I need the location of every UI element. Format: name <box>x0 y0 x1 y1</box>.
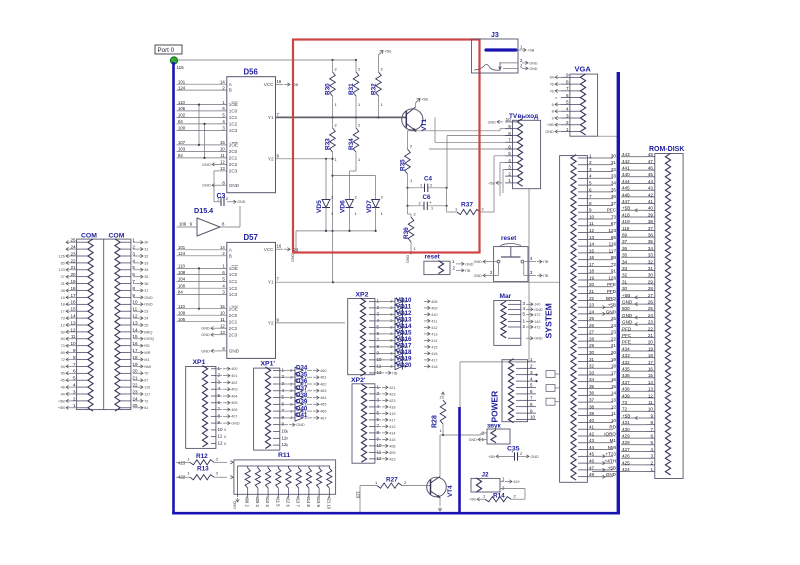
pin POWER 6 <box>516 393 528 395</box>
pin XP2' 12 <box>369 458 375 460</box>
svg-text:401: 401 <box>231 374 237 378</box>
svg-text:GND: GND <box>291 253 295 262</box>
svg-text:2C1: 2C1 <box>229 156 238 161</box>
svg-text:24: 24 <box>589 309 595 314</box>
svg-text:+4TH: +4TH <box>605 459 616 464</box>
pin VGA 5 <box>561 103 570 105</box>
svg-text:2: 2 <box>530 364 533 369</box>
svg-text:9: 9 <box>589 208 592 213</box>
svg-text:R37: R37 <box>461 201 473 208</box>
svg-text:42: 42 <box>648 192 654 197</box>
svg-text:5: 5 <box>377 324 380 329</box>
svg-text:5: 5 <box>530 383 533 388</box>
pin SYSTEM 41 net RD <box>578 428 587 430</box>
pin SYSTEM 1 net 30 <box>578 157 587 159</box>
svg-text:17: 17 <box>611 370 617 375</box>
svg-text:5: 5 <box>508 151 511 156</box>
pin ROM-DISK 48 net 443 <box>646 156 655 158</box>
svg-text:2C0: 2C0 <box>229 313 238 318</box>
svg-text:+5B: +5B <box>384 49 391 54</box>
pin SYSTEM 20 net PFE <box>578 286 587 288</box>
pin SYSTEM 16 net 88 <box>578 259 587 261</box>
svg-text:+5B: +5B <box>527 47 534 52</box>
svg-text:37: 37 <box>144 289 148 293</box>
pin XP2 4 <box>369 320 375 322</box>
svg-text:2: 2 <box>331 195 333 200</box>
pin SYSTEM 39 net 11 <box>578 415 587 417</box>
svg-text:R30: R30 <box>325 83 332 95</box>
pin Mar 2 <box>508 326 521 328</box>
svg-text:2: 2 <box>282 374 285 379</box>
pin ROM-DISK 39 net 418 <box>646 216 655 218</box>
pin ROM-DISK 31 net 33 <box>646 270 655 272</box>
pin XP2' 10 <box>369 445 375 447</box>
svg-text:27: 27 <box>589 330 595 335</box>
svg-text:8: 8 <box>218 413 221 418</box>
pin XP1 12 <box>211 443 216 445</box>
svg-text:101: 101 <box>178 245 186 250</box>
svg-text:GND: GND <box>202 183 211 188</box>
svg-text:ПВ: ПВ <box>392 371 398 375</box>
svg-text:R35: R35 <box>400 159 407 171</box>
pin XP1 8 <box>211 415 216 417</box>
pin SYSTEM 23 net +5B <box>578 306 587 308</box>
pin XP2 12 <box>369 372 375 374</box>
svg-text:14: 14 <box>220 245 225 250</box>
resistor R35 <box>408 130 416 132</box>
svg-text:107: 107 <box>178 140 186 145</box>
svg-text:410 4: 410 4 <box>265 497 270 508</box>
diode VD20 <box>395 363 403 369</box>
pin SYSTEM 3 net 32 <box>578 171 587 173</box>
svg-text:10: 10 <box>648 407 654 412</box>
pin POWER 9 <box>516 412 528 414</box>
svg-text:414: 414 <box>431 339 437 343</box>
svg-text:437: 437 <box>622 380 630 385</box>
pin SYSTEM 48 net GND <box>578 476 587 478</box>
svg-text:2: 2 <box>430 183 432 187</box>
svg-text:6: 6 <box>530 389 533 394</box>
pin SYSTEM 24 net GND <box>578 313 587 315</box>
svg-text:429: 429 <box>622 434 630 439</box>
svg-text:2: 2 <box>335 67 337 72</box>
svg-text:+5B: +5B <box>608 465 616 470</box>
pin SYSTEM 17 net 72 <box>578 266 587 268</box>
svg-text:7: 7 <box>508 138 511 143</box>
resistor R30 <box>330 72 336 96</box>
svg-text:73: 73 <box>61 344 65 348</box>
svg-text:2: 2 <box>381 67 383 72</box>
svg-text:126: 126 <box>58 254 64 258</box>
svg-text:433: 433 <box>622 353 630 358</box>
svg-text:GND: GND <box>622 320 633 325</box>
pin TVout 3 <box>505 168 513 170</box>
svg-text:5: 5 <box>589 181 592 186</box>
pin ROM-DISK 24 net GND <box>646 317 655 319</box>
wire ROM-DISK pin1 extension <box>592 471 621 473</box>
svg-text:423: 423 <box>389 399 395 403</box>
svg-text:11: 11 <box>218 434 223 439</box>
svg-text:2: 2 <box>589 160 592 165</box>
pin TVout 10 GND <box>497 121 503 123</box>
svg-text:+: + <box>429 200 432 205</box>
svg-text:408 2: 408 2 <box>245 497 250 508</box>
pin XP1' 4 <box>273 390 280 392</box>
pin SYSTEM 6 net 35 <box>578 191 587 193</box>
svg-text:408: 408 <box>389 444 395 448</box>
pin ROM-DISK 28 net 30 <box>646 290 655 292</box>
pin ROM-DISK 29 net 31 <box>646 283 655 285</box>
pin ROM-DISK 41 net 447 <box>646 203 655 205</box>
op-amp U D57 octal latch <box>227 242 276 358</box>
svg-text:409: 409 <box>389 451 395 455</box>
svg-text:ROM-DISK: ROM-DISK <box>649 146 684 153</box>
svg-text:2: 2 <box>216 471 218 476</box>
jumper blocks left of SYSTEM <box>546 371 555 378</box>
pin COM-left 12 / COM-right 14 <box>77 331 88 333</box>
svg-text:2: 2 <box>390 332 392 336</box>
pin COM-left 24 / COM-right 2 <box>77 248 88 250</box>
svg-text:446: 446 <box>622 192 630 197</box>
svg-text:427: 427 <box>622 447 630 452</box>
op-amp gate D41 <box>295 415 303 421</box>
svg-text:32: 32 <box>611 167 617 172</box>
pin SYSTEM 19 net 126 <box>578 279 587 281</box>
pin ROM-DISK 22 net PFD <box>646 330 655 332</box>
pin ROM-DISK 7 net 430 <box>646 430 655 432</box>
pin TVout 10 <box>505 121 513 123</box>
pin ROM-DISK 15 net 436 <box>646 377 655 379</box>
pin ROM-DISK 45 net 440 <box>646 176 655 178</box>
svg-text:1: 1 <box>566 127 569 132</box>
svg-text:140: 140 <box>534 303 540 307</box>
pin SYSTEM 28 net 22 <box>578 340 587 342</box>
svg-text:36: 36 <box>622 246 628 251</box>
diode VD5 <box>322 200 330 208</box>
svg-text:124: 124 <box>178 251 186 256</box>
diode VD10 <box>395 298 403 304</box>
wire net 123 <box>359 486 361 512</box>
svg-text:POWER: POWER <box>490 391 500 423</box>
svg-text:5: 5 <box>218 393 221 398</box>
svg-text:10: 10 <box>506 117 512 122</box>
diode VD16 <box>395 337 403 343</box>
svg-text:109: 109 <box>178 310 186 315</box>
pin ROM-DISK 23 net GND <box>646 323 655 325</box>
pin COM-left 8 / COM-right 18 <box>77 359 88 361</box>
wire Y2 net D57 <box>276 322 346 324</box>
pin COM-left 9 / COM-right 17 <box>77 352 88 354</box>
svg-text:460: 460 <box>320 369 326 373</box>
svg-text:D15.4: D15.4 <box>194 206 213 215</box>
resistor R31 <box>353 72 359 96</box>
svg-text:34: 34 <box>622 259 628 264</box>
pin TVout 1 +5B <box>496 182 502 184</box>
svg-text:42: 42 <box>589 431 595 436</box>
pin SYSTEM 46 net +4TH <box>578 462 587 464</box>
pin SYSTEM 36 net 14 <box>578 394 587 396</box>
svg-text:1OE: 1OE <box>229 266 238 271</box>
svg-text:M1: M1 <box>144 358 149 362</box>
svg-text:12: 12 <box>220 323 225 328</box>
svg-text:GND: GND <box>233 500 237 509</box>
svg-text:GND: GND <box>296 423 305 427</box>
svg-text:36: 36 <box>611 194 617 199</box>
svg-text:D41: D41 <box>296 412 308 419</box>
svg-text:8: 8 <box>377 344 380 349</box>
wire emitter to TVout pin9 <box>416 130 501 132</box>
svg-text:2: 2 <box>290 376 292 380</box>
svg-text:28: 28 <box>648 286 654 291</box>
svg-text:444: 444 <box>622 179 630 184</box>
svg-text:72: 72 <box>61 358 65 362</box>
svg-text:2: 2 <box>390 313 392 317</box>
svg-text:+5B: +5B <box>622 293 630 298</box>
svg-text:116: 116 <box>622 226 630 231</box>
pin COM-left 14 / COM-right 12 <box>77 317 88 319</box>
svg-text:PFD: PFD <box>622 326 632 331</box>
svg-text:3: 3 <box>566 113 569 118</box>
svg-text:ПВ: ПВ <box>543 260 549 264</box>
pin COM-left 3 / COM-right 23 <box>77 393 88 395</box>
svg-text:6: 6 <box>589 187 592 192</box>
svg-text:4: 4 <box>508 158 511 163</box>
wire to TVout pin6 <box>429 148 513 150</box>
svg-text:Y1: Y1 <box>268 280 274 285</box>
svg-text:73: 73 <box>61 317 65 321</box>
pin COM-left 18 / COM-right 8 <box>77 290 88 292</box>
svg-text:1: 1 <box>377 384 380 389</box>
svg-text:1: 1 <box>530 357 533 362</box>
wire R28 to zvuk <box>443 434 481 436</box>
svg-text:415: 415 <box>389 438 395 442</box>
svg-text:22: 22 <box>589 296 595 301</box>
wire 1OE-2OE tie D56 <box>198 105 200 145</box>
svg-text:35: 35 <box>622 253 628 258</box>
svg-text:9: 9 <box>377 436 380 441</box>
svg-text:21: 21 <box>611 343 617 348</box>
pin VGA 9 <box>561 76 570 78</box>
pin COM-left 7 / COM-right 19 <box>77 365 88 367</box>
svg-text:426: 426 <box>622 454 630 459</box>
pin XP1' 1 <box>273 369 280 371</box>
svg-text:31: 31 <box>622 279 628 284</box>
diode VD7 <box>372 200 380 208</box>
pin XP1 3 <box>211 381 216 383</box>
svg-text:9: 9 <box>566 73 569 78</box>
pin SYSTEM 7 net 36 <box>578 198 587 200</box>
svg-text:14: 14 <box>648 380 654 385</box>
pin SYSTEM 33 net 17 <box>578 374 587 376</box>
svg-text:PFE: PFE <box>607 282 616 287</box>
svg-text:GND: GND <box>469 438 478 442</box>
pin COM-left 20 / COM-right 6 <box>77 276 88 278</box>
svg-text:410: 410 <box>431 313 437 317</box>
pin XP1' 9 <box>273 424 280 426</box>
svg-text:47: 47 <box>589 465 595 470</box>
svg-text:4: 4 <box>523 306 526 311</box>
svg-text:GND: GND <box>406 254 410 263</box>
pin SYSTEM 47 net +5B <box>578 469 587 471</box>
svg-text:reset: reset <box>425 254 441 261</box>
svg-text:46: 46 <box>61 386 65 390</box>
pin VGA 1 <box>561 131 570 133</box>
pin XP1 10 <box>211 429 216 431</box>
svg-text:12: 12 <box>61 323 65 327</box>
svg-text:423: 423 <box>178 461 186 466</box>
pin COM-left 23 / COM-right 3 <box>77 255 88 257</box>
pin ROM-DISK 46 net 441 <box>646 169 655 171</box>
pin POWER 10 <box>516 419 528 421</box>
svg-text:GND: GND <box>202 162 211 167</box>
svg-text:1: 1 <box>217 197 219 201</box>
svg-text:3: 3 <box>377 397 380 402</box>
svg-text:419: 419 <box>513 480 519 484</box>
svg-text:442: 442 <box>622 159 630 164</box>
svg-text:2: 2 <box>508 171 511 176</box>
svg-text:PFE: PFE <box>622 340 631 345</box>
pin ROM-DISK 3 net 426 <box>646 457 655 459</box>
svg-text:37: 37 <box>622 239 628 244</box>
svg-text:1: 1 <box>420 183 422 187</box>
svg-text:116: 116 <box>609 242 617 247</box>
svg-text:1: 1 <box>508 178 511 183</box>
svg-text:GND: GND <box>237 200 246 204</box>
svg-text:7: 7 <box>377 423 380 428</box>
svg-text:9: 9 <box>218 420 221 425</box>
pin TVout 5 <box>505 155 513 157</box>
svg-text:VCC: VCC <box>264 247 274 252</box>
svg-text:70: 70 <box>144 372 148 376</box>
svg-text:472: 472 <box>534 313 540 317</box>
svg-text:2: 2 <box>216 457 218 462</box>
svg-text:9: 9 <box>552 116 554 120</box>
pin VGA 4 <box>561 110 570 112</box>
pin ROM-DISK 38 net 419 <box>646 223 655 225</box>
node Port0 green junction <box>170 57 177 64</box>
svg-text:WR: WR <box>144 351 151 355</box>
wire R34 bottom to VD6 <box>355 152 357 171</box>
pin COM-left 13 / COM-right 13 <box>77 324 88 326</box>
svg-text:18: 18 <box>61 303 65 307</box>
svg-text:415: 415 <box>431 345 437 349</box>
svg-text:Port 0: Port 0 <box>158 47 175 54</box>
svg-text:1: 1 <box>218 366 221 371</box>
svg-text:69: 69 <box>622 233 628 238</box>
svg-text:20: 20 <box>611 350 617 355</box>
wire R33 bottom to Y2/VD column <box>332 152 334 282</box>
svg-text:36: 36 <box>144 282 148 286</box>
wire 84 tie D56 <box>204 124 206 158</box>
svg-text:403: 403 <box>231 388 237 392</box>
pin ROM-DISK 11 net 73 <box>646 404 655 406</box>
pin SYSTEM 42 net IORQ <box>578 435 587 437</box>
svg-text:123: 123 <box>355 491 360 499</box>
svg-text:413: 413 <box>389 425 395 429</box>
pin POWER 3 <box>516 374 528 376</box>
pin SYSTEM 4 net 33 <box>578 177 587 179</box>
svg-text:Y2: Y2 <box>268 320 274 325</box>
svg-text:+T23: +T23 <box>605 452 616 457</box>
svg-text:2: 2 <box>226 197 228 201</box>
svg-text:VGA: VGA <box>575 65 592 74</box>
svg-text:26: 26 <box>648 300 654 305</box>
svg-text:25: 25 <box>648 306 654 311</box>
pin Mar 4 <box>508 308 521 310</box>
svg-text:J3: J3 <box>491 32 499 39</box>
svg-text:110: 110 <box>178 264 185 269</box>
svg-text:140: 140 <box>534 320 540 324</box>
pin ROM-DISK 32 net 34 <box>646 263 655 265</box>
pin XP2 10 <box>369 359 375 361</box>
svg-text:1: 1 <box>431 207 433 211</box>
pin COM-left 5 / COM-right 21 <box>77 379 88 381</box>
svg-text:3: 3 <box>650 454 653 459</box>
svg-text:21: 21 <box>589 289 595 294</box>
svg-text:30: 30 <box>648 273 654 278</box>
svg-text:25: 25 <box>611 316 617 321</box>
svg-text:7: 7 <box>530 396 533 401</box>
pin XP2' 11 <box>369 451 375 453</box>
pin SYSTEM 45 net +T23 <box>578 455 587 457</box>
svg-text:421: 421 <box>389 386 395 390</box>
svg-text:1: 1 <box>335 102 337 107</box>
svg-text:35: 35 <box>144 275 148 279</box>
svg-text:12: 12 <box>220 160 225 165</box>
svg-text:1: 1 <box>440 428 442 433</box>
svg-text:9: 9 <box>530 408 533 413</box>
svg-text:24: 24 <box>144 317 148 321</box>
svg-text:2: 2 <box>404 480 406 485</box>
wire Port0 bus left vertical <box>172 62 175 514</box>
svg-text:15: 15 <box>589 248 595 253</box>
svg-text:64: 64 <box>550 76 554 80</box>
svg-text:1C3: 1C3 <box>229 292 238 297</box>
svg-text:4: 4 <box>282 388 285 393</box>
svg-text:30: 30 <box>589 350 595 355</box>
svg-text:69: 69 <box>61 351 65 355</box>
pin XP2' 2 <box>369 393 375 395</box>
wire POWER pin1 to bus <box>460 361 528 363</box>
svg-text:GND: GND <box>529 61 538 65</box>
pin XP1 6 <box>211 402 216 404</box>
svg-text:461: 461 <box>320 376 326 380</box>
svg-text:1: 1 <box>335 157 337 162</box>
svg-text:4: 4 <box>530 376 533 381</box>
svg-text:9: 9 <box>650 413 653 418</box>
svg-text:2: 2 <box>390 306 392 310</box>
svg-text:2: 2 <box>390 352 392 356</box>
svg-text:10: 10 <box>220 310 225 315</box>
wire to TVout pin7 <box>435 141 513 143</box>
svg-text:24: 24 <box>648 313 654 318</box>
pin XP1' 12 <box>273 444 280 446</box>
wire reset button right pins <box>524 261 536 263</box>
svg-text:13: 13 <box>220 166 225 171</box>
svg-text:GND: GND <box>622 300 633 305</box>
svg-text:35: 35 <box>589 384 595 389</box>
svg-text:84: 84 <box>178 119 183 124</box>
svg-text:4: 4 <box>377 318 380 323</box>
pin ROM-DISK 36 net 69 <box>646 236 655 238</box>
svg-text:34: 34 <box>589 377 595 382</box>
wire R31 top stub <box>355 60 357 72</box>
svg-text:22: 22 <box>648 326 654 331</box>
svg-text:1: 1 <box>483 494 485 499</box>
pin SYSTEM 27 net 23 <box>578 333 587 335</box>
pin XP2 7 <box>369 339 375 341</box>
pin ROM-DISK 12 net 439 <box>646 397 655 399</box>
